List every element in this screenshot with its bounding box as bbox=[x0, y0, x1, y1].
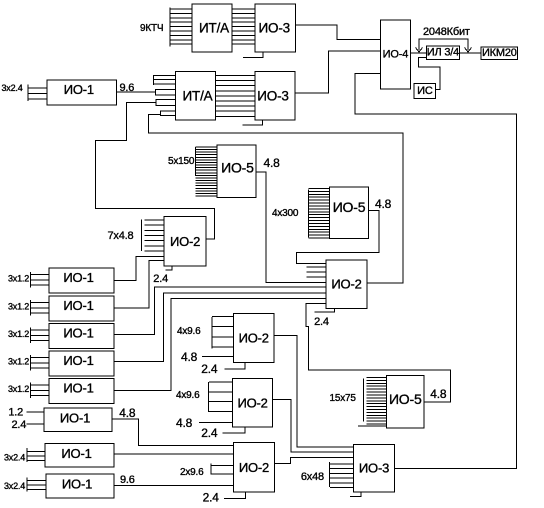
svg-text:2.4: 2.4 bbox=[201, 426, 218, 440]
svg-text:3x2.4: 3x2.4 bbox=[2, 83, 23, 93]
block IO-1 9 bbox=[46, 474, 114, 498]
comb 4x9.6 into IO-2 3 bbox=[211, 317, 213, 349]
block IO-4 bbox=[380, 20, 410, 89]
wire IO-2 3 output to IO-3 3 bbox=[274, 335, 354, 447]
svg-text:3x2.4: 3x2.4 bbox=[4, 481, 25, 491]
wire stub 2.4 below IO-2 1 bbox=[166, 266, 173, 270]
block IT/A 1 bbox=[192, 4, 232, 52]
svg-text:5x150: 5x150 bbox=[168, 156, 195, 167]
connector bracket of IO-1 9 bbox=[26, 478, 28, 492]
wire IO-1 3 output to IO-2 1 bbox=[114, 261, 164, 308]
svg-text:ИО-3: ИО-3 bbox=[359, 461, 389, 476]
svg-text:4.8: 4.8 bbox=[181, 350, 198, 364]
connector bracket of IO-1 8 bbox=[26, 448, 28, 462]
svg-text:ИО-1: ИО-1 bbox=[63, 298, 93, 313]
svg-text:ИО-3: ИО-3 bbox=[259, 21, 290, 36]
svg-text:3x2.4: 3x2.4 bbox=[4, 452, 25, 462]
block IS bbox=[414, 84, 436, 99]
wire 2.4 into IO-1 7 bbox=[26, 423, 44, 425]
svg-text:3x1.2: 3x1.2 bbox=[8, 274, 29, 284]
block IO-1 8 bbox=[45, 444, 114, 468]
block IO-5 1 bbox=[217, 145, 256, 198]
wire IO-2 1 output up to IT/A 2 pin 2 bbox=[95, 103, 214, 240]
block IO-1 5 bbox=[49, 351, 114, 376]
svg-text:ИО-5: ИО-5 bbox=[333, 199, 366, 215]
connector bracket of IO-1 4 bbox=[30, 328, 32, 344]
wire IO-4 output to IL 3/4 bbox=[411, 52, 427, 54]
wire 1.2 into IO-1 7 bbox=[26, 411, 44, 413]
comb 5x150 into IO-5 1 (20 lines) bbox=[195, 147, 197, 176]
svg-text:2.4: 2.4 bbox=[12, 419, 27, 431]
comb 9KTCh input (9 lines) into IT/A 1 bbox=[169, 8, 171, 47]
svg-text:3x1.2: 3x1.2 bbox=[8, 384, 29, 394]
svg-text:2.4: 2.4 bbox=[314, 316, 329, 328]
svg-text:6x48: 6x48 bbox=[301, 471, 324, 483]
block IO-2 5 bbox=[234, 443, 275, 493]
comb 4x300 into IO-5 2 (18 lines) bbox=[308, 190, 310, 238]
wire stub 2.4 below IO-2 4 bbox=[223, 427, 246, 433]
wire IO-2 mid output up to IT/A 2 pin 3 bbox=[148, 114, 402, 283]
svg-text:9КТЧ: 9КТЧ bbox=[140, 23, 163, 34]
comb 2x9.6 into IO-2 5 bbox=[210, 464, 212, 475]
comb IT/A 1 to IO-3 1 (9 lines) bbox=[232, 8, 255, 10]
svg-text:ИС: ИС bbox=[417, 85, 433, 97]
wire stub 2.4 below IO-2 3 bbox=[225, 362, 246, 369]
wire IO-1 9 output to IO-2 5 bbox=[114, 484, 234, 486]
svg-text:ИО-1: ИО-1 bbox=[63, 381, 93, 396]
stub lines into IO-2 mid left (3 short) bbox=[307, 266, 326, 268]
svg-text:ИКМ20: ИКМ20 bbox=[482, 47, 517, 59]
svg-text:2.4: 2.4 bbox=[201, 362, 218, 376]
svg-text:ИО-3: ИО-3 bbox=[257, 88, 288, 103]
pin rect 2 of IT/A 2 bbox=[156, 100, 176, 106]
svg-text:ИО-1: ИО-1 bbox=[61, 446, 91, 461]
svg-text:4.8: 4.8 bbox=[264, 156, 281, 170]
wire IO-1 4 output to IO-2 mid bbox=[114, 287, 326, 334]
wire IO-5 1 output to IO-2 mid bbox=[256, 172, 326, 283]
svg-text:1.2: 1.2 bbox=[8, 407, 23, 419]
connector bracket of IO-1 6 bbox=[30, 383, 32, 399]
wire IO-3 3 output via right trunk to IO-4 bbox=[355, 74, 516, 469]
svg-text:4x9.6: 4x9.6 bbox=[177, 326, 201, 337]
block IO-3 3 bbox=[354, 444, 395, 492]
svg-text:7x4.8: 7x4.8 bbox=[108, 230, 134, 242]
wire 2048Kbit bypass loop with arrows bbox=[419, 39, 468, 50]
block IO-1 1 bbox=[47, 80, 117, 105]
block IT/A 2 bbox=[176, 72, 216, 121]
wire IO-5 2 output to IO-2 mid bbox=[297, 211, 379, 264]
svg-text:2048Кбит: 2048Кбит bbox=[423, 26, 470, 38]
svg-text:9.6: 9.6 bbox=[120, 474, 135, 486]
wire IO-1 6 output to IO-2 mid bbox=[114, 299, 326, 391]
arrowhead right of IL 3/4 bbox=[465, 48, 472, 53]
svg-text:ИО-1: ИО-1 bbox=[63, 270, 93, 285]
block IO-1 4 bbox=[49, 324, 114, 349]
wire 4.8 stub into IO-2 4 bbox=[199, 422, 233, 424]
wire stub 2.4 below IO-2 mid bbox=[314, 308, 334, 312]
svg-text:ИО-2: ИО-2 bbox=[237, 395, 267, 410]
long bottom line of 15x75 comb bbox=[358, 425, 386, 427]
svg-text:ИО-5: ИО-5 bbox=[389, 391, 422, 407]
wire IO-2 4 output to IO-3 3 bbox=[273, 400, 354, 452]
comb 15x75 into IO-5 3 (17 lines) bbox=[363, 378, 365, 421]
svg-text:3x1.2: 3x1.2 bbox=[8, 329, 29, 339]
svg-text:4.8: 4.8 bbox=[375, 197, 392, 211]
svg-text:ИО-1: ИО-1 bbox=[60, 410, 90, 425]
wire stub below IO-3 2 bbox=[243, 120, 263, 125]
svg-text:2.4: 2.4 bbox=[153, 273, 168, 285]
block IO-3 2 bbox=[255, 72, 295, 121]
block IL 3/4 bbox=[426, 46, 459, 59]
connector bracket of IO-1 1 bbox=[27, 85, 29, 102]
comb 7x4.8 into IO-2 1 (7 lines, thick spine) bbox=[141, 220, 143, 252]
svg-text:ИО-4: ИО-4 bbox=[383, 49, 409, 61]
pin rect 1 of IT/A 2 bbox=[156, 90, 176, 95]
wire IO-3 2 output to IO-4 bbox=[295, 51, 380, 93]
wire stub 2.4 below IO-2 5 bbox=[224, 492, 246, 498]
wire IO-2 5 output to IO-3 3 bbox=[274, 457, 353, 463]
svg-text:ИО-1: ИО-1 bbox=[62, 477, 92, 492]
block IO-2 4 bbox=[233, 379, 273, 428]
svg-text:4.8: 4.8 bbox=[119, 406, 136, 420]
svg-text:15x75: 15x75 bbox=[330, 393, 357, 404]
block IKM20 bbox=[481, 47, 518, 60]
block IO-1 6 bbox=[49, 379, 114, 404]
block IO-2 3 bbox=[234, 314, 274, 363]
wire stub below IO-3 1 bbox=[243, 52, 263, 58]
svg-text:ИТ/А: ИТ/А bbox=[183, 88, 213, 103]
svg-text:ИО-2: ИО-2 bbox=[331, 277, 361, 292]
svg-text:ИО-5: ИО-5 bbox=[221, 159, 254, 175]
wire IO-1 2 output to IO-2 1 bbox=[114, 257, 164, 281]
svg-text:ИЛ 3/4: ИЛ 3/4 bbox=[427, 47, 459, 59]
block IO-1 7 bbox=[44, 408, 112, 432]
svg-text:ИО-1: ИО-1 bbox=[63, 353, 93, 368]
svg-text:ИО-2: ИО-2 bbox=[170, 234, 200, 249]
svg-text:4.8: 4.8 bbox=[176, 416, 193, 430]
wire IO-1 8 output to IO-2 5 bbox=[114, 453, 234, 455]
block IO-1 2 bbox=[49, 268, 114, 293]
svg-text:3x1.2: 3x1.2 bbox=[8, 302, 29, 312]
block IO-2 mid bbox=[326, 260, 367, 308]
wire IO-1 5 output to IO-2 mid bbox=[114, 293, 326, 362]
wire IO-5 3 output to IO-2 mid bottom input bbox=[306, 303, 451, 402]
svg-text:ИО-1: ИО-1 bbox=[64, 82, 94, 97]
wire IO-1 7 output to IO-2 5 bbox=[112, 419, 234, 445]
connector bracket of IO-1 3 bbox=[30, 300, 32, 316]
pin rect 3 of IT/A 2 bbox=[160, 111, 175, 116]
block IO-1 3 bbox=[49, 296, 114, 321]
arrowhead left of IL 3/4 bbox=[416, 48, 423, 53]
svg-text:4.8: 4.8 bbox=[430, 387, 447, 401]
block IO-2 1 bbox=[164, 217, 206, 266]
svg-text:ИО-2: ИО-2 bbox=[239, 460, 269, 475]
svg-text:2x9.6: 2x9.6 bbox=[180, 467, 204, 478]
block IO-5 3 bbox=[386, 376, 424, 429]
wire stub below IO-3 3 bbox=[350, 492, 361, 497]
svg-text:ИО-1: ИО-1 bbox=[63, 326, 93, 341]
block IO-3 1 bbox=[255, 4, 296, 52]
svg-text:ИО-2: ИО-2 bbox=[239, 331, 269, 346]
comb 4x9.6 into IO-2 4 bbox=[208, 382, 210, 412]
wire IO-1 1 output to IT/A 2 pin 1 bbox=[117, 91, 156, 93]
comb IT/A 2 to IO-3 2 (9 lines) bbox=[216, 75, 256, 77]
wire IL 3/4 to IKM20 bbox=[459, 52, 481, 54]
svg-text:4x300: 4x300 bbox=[272, 208, 299, 219]
svg-text:3x1.2: 3x1.2 bbox=[8, 357, 29, 367]
connector bracket of IO-1 2 bbox=[30, 272, 32, 288]
comb 6x48 into IO-3 3 bbox=[329, 462, 331, 487]
wire 4.8 stub into IO-2 3 bbox=[202, 356, 234, 358]
svg-text:4x9.6: 4x9.6 bbox=[176, 390, 200, 401]
comb marks at IT/A 2 top-left (3 lines) bbox=[153, 75, 155, 85]
connector bracket of IO-1 5 bbox=[30, 355, 32, 371]
wire IL 3/4 to IS bbox=[418, 57, 440, 89]
svg-text:ИТ/А: ИТ/А bbox=[199, 21, 229, 36]
wire IO-3 1 output to IO-4 bbox=[296, 25, 381, 40]
svg-text:2.4: 2.4 bbox=[203, 491, 220, 505]
block IO-5 2 bbox=[330, 187, 369, 239]
